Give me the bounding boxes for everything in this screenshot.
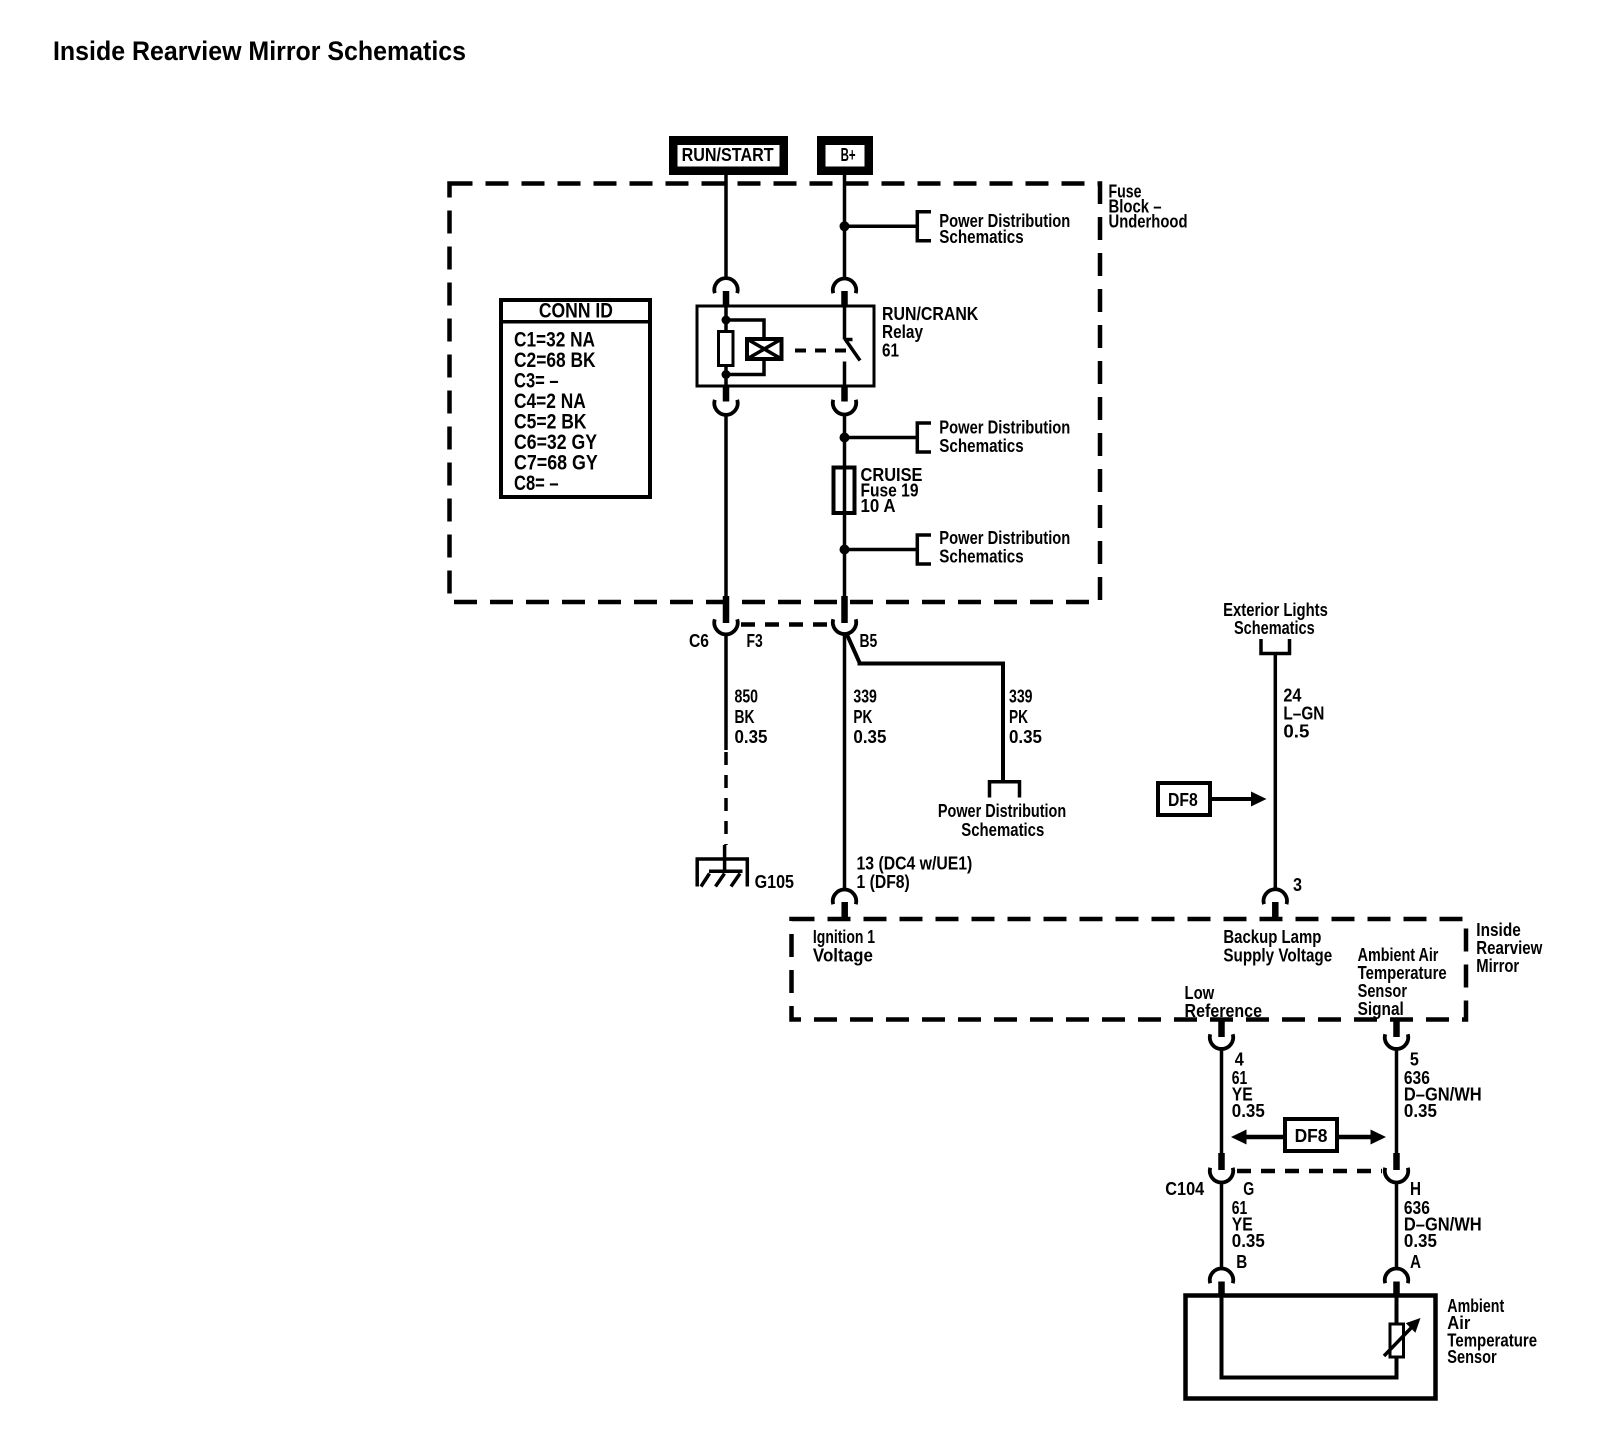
label power distribution 1: [939, 211, 1070, 247]
relay actuator dashed link: [795, 349, 847, 353]
label pin B: [1236, 1252, 1247, 1272]
svg-text:B: B: [1236, 1252, 1247, 1272]
svg-text:CONN ID: CONN ID: [539, 300, 613, 323]
svg-text:G: G: [1243, 1179, 1254, 1199]
svg-text:Power Distribution: Power Distribution: [938, 801, 1066, 821]
wire branch to power distribution 3: [845, 548, 918, 552]
svg-text:Underhood: Underhood: [1109, 212, 1188, 232]
label Backup Lamp Supply Voltage: [1223, 927, 1332, 966]
pin stub B5 male: [841, 596, 848, 623]
label wire 61 YE 0.35 lower: [1232, 1198, 1265, 1251]
pin stub sensor pin A male: [1393, 1282, 1400, 1297]
label power distribution 3: [939, 528, 1070, 567]
svg-text:RUN/START: RUN/START: [682, 145, 774, 165]
label pin 4: [1235, 1050, 1244, 1070]
off-page bracket power distribution 2: [917, 423, 931, 452]
svg-text:0.35: 0.35: [735, 727, 768, 747]
connector arc relay pin 86 (left top): [714, 278, 737, 293]
svg-text:Mirror: Mirror: [1476, 956, 1519, 976]
label Low Reference: [1185, 983, 1263, 1021]
connector arc mirror pin ignition female: [833, 889, 856, 904]
connector arc mirror pin 3 female: [1264, 889, 1287, 904]
sensor internal wire loop: [1222, 1296, 1397, 1378]
wire 61 YE lower: [1220, 1181, 1224, 1270]
connector arc C6/F3 female: [714, 619, 737, 634]
svg-text:B+: B+: [841, 145, 856, 165]
label Ambient Air Temperature Sensor: [1447, 1296, 1537, 1367]
svg-text:F3: F3: [747, 631, 763, 651]
node RUN/START: [673, 140, 785, 172]
junction dot B+ branch: [840, 221, 850, 231]
svg-text:H: H: [1410, 1179, 1421, 1199]
label wire 13 DC4 1 DF8: [857, 854, 973, 893]
label RUN/CRANK Relay 61: [882, 304, 978, 361]
svg-text:850: 850: [735, 687, 759, 707]
pin stub C104 H male: [1393, 1153, 1400, 1170]
svg-text:1 (DF8): 1 (DF8): [857, 872, 910, 892]
label wire 850 BK 0.35: [735, 687, 768, 748]
pin stub relay right top: [841, 291, 848, 306]
svg-text:C8= –: C8= –: [514, 472, 559, 495]
label F3: [747, 631, 763, 651]
wire branch to power distribution 2: [845, 436, 918, 440]
label power distribution 4: [938, 801, 1066, 840]
svg-text:B5: B5: [860, 631, 878, 651]
svg-text:0.35: 0.35: [1009, 727, 1042, 747]
svg-text:0.35: 0.35: [1232, 1231, 1265, 1251]
label pin H: [1410, 1179, 1421, 1199]
wire branch to power distribution 1: [845, 225, 918, 229]
svg-text:5: 5: [1410, 1050, 1419, 1070]
label Exterior Lights Schematics: [1223, 600, 1328, 638]
label pin G: [1243, 1179, 1254, 1199]
svg-text:Relay: Relay: [882, 322, 923, 342]
wire 850 BK dashed part: [724, 752, 728, 845]
connector arc sensor pin A female: [1385, 1268, 1408, 1283]
svg-text:Power Distribution: Power Distribution: [939, 418, 1070, 438]
connector arc sensor pin B female: [1210, 1268, 1233, 1283]
label Fuse Block Underhood: [1109, 182, 1188, 232]
pin stub mirror ignition male: [841, 902, 848, 919]
wire 24 L-GN down to mirror: [1274, 655, 1278, 890]
wire relay left bottom to C6: [724, 415, 728, 597]
svg-text:Low: Low: [1185, 983, 1216, 1003]
svg-text:Sensor: Sensor: [1358, 981, 1407, 1001]
svg-text:339: 339: [1009, 687, 1033, 707]
label CRUISE Fuse 19 10 A: [861, 465, 923, 516]
wire 636 D-GN/WH upper: [1395, 1047, 1399, 1153]
wire 636 D-GN/WH lower: [1395, 1181, 1399, 1270]
label pin 5: [1410, 1050, 1419, 1070]
svg-text:DF8: DF8: [1295, 1126, 1328, 1146]
svg-text:Temperature: Temperature: [1358, 963, 1447, 983]
svg-text:Schematics: Schematics: [1234, 618, 1315, 638]
connector arc below relay left: [714, 400, 737, 415]
connector arc C104 H female: [1385, 1168, 1408, 1183]
relay switch: [845, 306, 861, 386]
inline connector dashed line C104: [1237, 1169, 1382, 1174]
inline connector dashed line C6 row: [741, 622, 831, 627]
label wire 339 PK 0.35 main: [853, 687, 886, 748]
svg-text:Backup Lamp: Backup Lamp: [1223, 927, 1321, 947]
connector arc B5 female: [833, 619, 856, 634]
svg-text:Inside Rearview Mirror Schemat: Inside Rearview Mirror Schematics: [53, 36, 466, 66]
svg-text:Supply Voltage: Supply Voltage: [1223, 946, 1332, 966]
svg-text:0.35: 0.35: [1404, 1231, 1437, 1251]
svg-text:G105: G105: [755, 872, 794, 892]
svg-text:10 A: 10 A: [861, 496, 896, 516]
label Ambient Air Temperature Sensor Signal: [1358, 945, 1447, 1019]
label wire 24 L-GN 0.5: [1283, 686, 1324, 742]
wire resistor bottom to junction: [724, 366, 728, 387]
label wire 636 D-GN/WH 0.35 upper: [1404, 1068, 1482, 1121]
label C104: [1165, 1179, 1204, 1199]
label Inside Rearview Mirror: [1476, 920, 1543, 976]
pin stub mirror pin 3 male: [1272, 902, 1279, 919]
pin stub mirror pin 4 male: [1218, 1020, 1225, 1037]
svg-text:Signal: Signal: [1358, 999, 1404, 1019]
connector arc C104 G female: [1210, 1168, 1233, 1183]
inside rearview mirror dashed box: [792, 919, 1467, 1020]
node B+: [821, 140, 870, 172]
svg-text:DF8: DF8: [1168, 790, 1198, 810]
label Ignition 1 Voltage: [813, 927, 875, 966]
wire RUN/START down to relay connector: [724, 175, 728, 280]
resistor element in relay: [719, 332, 734, 366]
svg-text:Reference: Reference: [1185, 1001, 1263, 1021]
off-page bracket power distribution 4: [990, 782, 1020, 798]
svg-text:A: A: [1410, 1252, 1421, 1272]
svg-text:Schematics: Schematics: [939, 547, 1023, 567]
svg-text:13 (DC4 w/UE1): 13 (DC4 w/UE1): [857, 854, 973, 874]
svg-text:Exterior Lights: Exterior Lights: [1223, 600, 1328, 620]
relay winding loop wire: [726, 320, 764, 375]
svg-text:Voltage: Voltage: [813, 946, 873, 966]
junction dot fuse bottom branch: [840, 545, 850, 555]
junction dot relay bottom: [722, 370, 731, 379]
wire branch 339 PK to power distribution 4: [847, 634, 1004, 782]
svg-text:61: 61: [882, 341, 899, 361]
svg-text:Rearview: Rearview: [1476, 938, 1543, 958]
svg-text:Ignition 1: Ignition 1: [813, 927, 875, 947]
connector arc relay pin 30 (right top): [833, 278, 856, 293]
relay winding box with X: [747, 339, 782, 359]
svg-text:L–GN: L–GN: [1283, 704, 1324, 724]
svg-text:0.35: 0.35: [1404, 1101, 1437, 1121]
pin stub relay left bottom: [723, 386, 730, 402]
sensor box: ambient air temperature sensor: [1186, 1296, 1436, 1399]
title: [53, 36, 466, 66]
label wire 339 PK 0.35 branch: [1009, 687, 1042, 748]
off-page bracket exterior lights: [1261, 639, 1290, 654]
wire 61 YE upper: [1220, 1047, 1224, 1153]
svg-text:339: 339: [853, 687, 877, 707]
connector arc mirror pin 5 female: [1385, 1034, 1408, 1049]
svg-text:PK: PK: [853, 707, 872, 727]
pin stub C104 G male: [1218, 1153, 1225, 1170]
svg-text:Schematics: Schematics: [939, 436, 1023, 456]
label G105: [755, 872, 794, 892]
CONN ID table: [501, 300, 650, 498]
svg-text:Schematics: Schematics: [961, 820, 1044, 840]
DF8 reference box with arrow: [1158, 783, 1267, 815]
svg-text:0.5: 0.5: [1283, 722, 1309, 742]
svg-text:PK: PK: [1009, 707, 1028, 727]
connector arc mirror pin 4 female: [1210, 1034, 1233, 1049]
svg-text:Schematics: Schematics: [939, 227, 1023, 247]
off-page bracket power distribution 1: [917, 212, 931, 241]
fuse block underhood dashed box: [450, 184, 1101, 603]
svg-text:0.35: 0.35: [853, 727, 886, 747]
DF8 double arrow reference: [1231, 1119, 1386, 1151]
relay coil branch wire: [724, 306, 728, 332]
pin stub C6 male: [723, 596, 730, 623]
wire B+ down to relay connector: [843, 175, 847, 280]
svg-text:Power Distribution: Power Distribution: [939, 528, 1070, 548]
svg-text:3: 3: [1293, 875, 1302, 895]
thermistor RT element: [1384, 1318, 1421, 1357]
connector arc below relay right: [833, 400, 856, 415]
pin stub sensor pin B male: [1218, 1282, 1225, 1297]
fuse F1: CRUISE Fuse 19 10A: [834, 468, 855, 514]
svg-text:4: 4: [1235, 1050, 1244, 1070]
label pin 3: [1293, 875, 1302, 895]
label C6: [689, 631, 709, 651]
label wire 636 D-GN/WH 0.35 lower: [1404, 1198, 1482, 1251]
wire relay right bottom down: [843, 415, 847, 468]
svg-text:BK: BK: [735, 707, 755, 727]
junction dot fuse top branch: [840, 433, 850, 443]
pin stub mirror pin 5 male: [1393, 1020, 1400, 1037]
label B5: [860, 631, 878, 651]
svg-text:C6: C6: [689, 631, 709, 651]
label wire 61 YE 0.35 upper: [1232, 1068, 1265, 1121]
svg-text:Ambient Air: Ambient Air: [1358, 945, 1439, 965]
off-page bracket power distribution 3: [917, 535, 931, 564]
label pin A: [1410, 1252, 1421, 1272]
relay U: RUN/CRANK Relay 61 box: [697, 306, 874, 386]
svg-text:RUN/CRANK: RUN/CRANK: [882, 304, 978, 324]
ground G105: [696, 845, 750, 887]
wire 339 PK main down: [843, 633, 847, 888]
svg-text:Inside: Inside: [1476, 920, 1521, 940]
svg-text:0.35: 0.35: [1232, 1101, 1265, 1121]
label power distribution 2: [939, 418, 1070, 457]
svg-text:24: 24: [1283, 686, 1301, 706]
wire fuse bottom down: [843, 513, 847, 596]
pin stub relay right bottom: [841, 386, 848, 402]
svg-text:Sensor: Sensor: [1447, 1347, 1496, 1367]
svg-text:C104: C104: [1165, 1179, 1204, 1199]
wire 850 BK solid part: [724, 633, 728, 750]
junction dot relay top: [722, 316, 731, 325]
pin stub relay left top: [723, 291, 730, 306]
